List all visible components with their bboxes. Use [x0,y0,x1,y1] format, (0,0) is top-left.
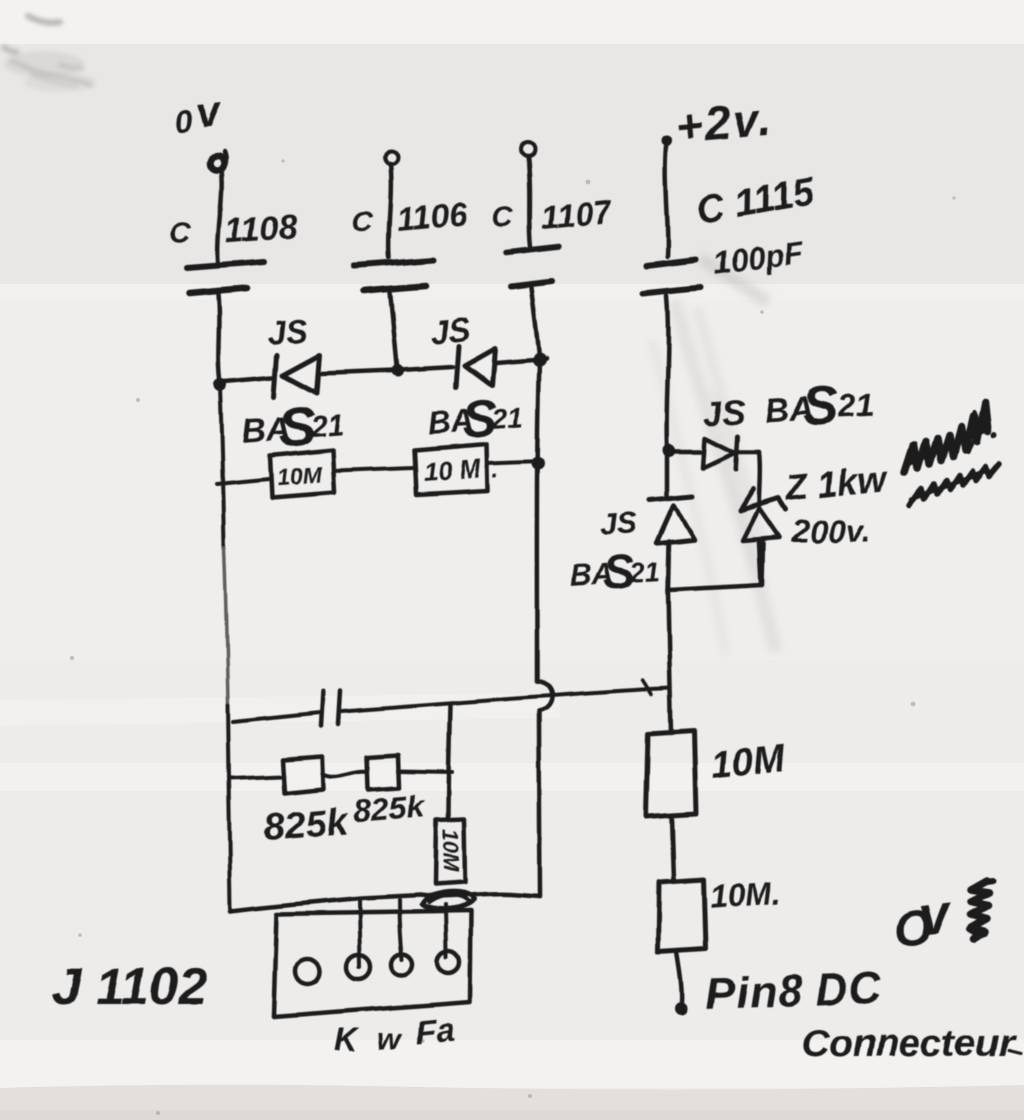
label JS (D2) [429,310,472,350]
node 0V label [172,87,225,141]
junction blob [421,892,474,910]
pin wires [359,899,446,967]
label C 1115 [692,170,819,233]
wire bottom loop [668,543,762,590]
diode D1 JS BAS21 [274,355,320,397]
wire left rail to coupling cap [233,713,320,722]
label JS BAS21 (D3) [702,374,876,443]
wire rail to R3 [668,591,671,733]
junction node B [392,365,404,377]
stray tick near wire junction [643,680,652,694]
diode D3 JS BAS21 [673,436,760,469]
scribble crossed-out note (lower) [910,464,999,506]
junction node A [214,379,227,392]
junction node D [663,445,676,458]
terminal (C1106 top) [385,151,398,164]
svg-text:JS: JS [266,311,309,351]
terminal node 0V [210,152,226,170]
wire hump (right rail jumps middle wire) [537,681,552,711]
svg-text:10M.: 10M. [709,875,782,916]
resistor 10M vertical (middle) [435,819,465,884]
label 100pF [711,234,806,281]
bottom wire [231,894,540,911]
wire left rail (node A down, upper dark segment) [220,388,224,548]
terminal (C1107 top) [521,142,535,156]
diode D4 JS BAS21 [650,496,694,543]
wire right rail lower [539,711,540,896]
wire 825k row segments [230,771,452,778]
zener Z1 [741,490,786,541]
diode D2 JS BAS21 [456,346,495,388]
svg-text:S: S [801,376,840,438]
resistor 825k #2 [367,755,399,790]
wire +2V to C1115 [665,147,667,257]
label Z 1kW [783,457,890,509]
wire 0V terminal to C1108 [218,169,222,262]
resistor 10M right [414,444,488,494]
connector pins [296,951,460,984]
svg-text:w: w [377,1021,403,1056]
svg-text:JS: JS [429,310,472,350]
terminal +2V [662,136,673,147]
svg-text:Fa: Fa [414,1010,456,1051]
wire left rail (pencil-gray mid segment) [224,548,228,706]
wire C1107 to node C [531,287,539,357]
connector J1102 box [274,911,471,1017]
svg-text:200v.: 200v. [791,513,870,549]
wire R4 to Pin8 [677,951,682,1002]
wire R3 to R4 [672,817,674,881]
svg-text:JS: JS [702,393,746,433]
svg-text:C: C [352,206,374,238]
scribble crossed-out note (upper) [904,402,988,472]
wire diode row segments [224,359,546,382]
svg-text:21: 21 [836,387,874,425]
svg-text:K: K [334,1021,360,1058]
label +2V [674,93,774,153]
capacitor C1106 [352,195,469,291]
label 825k 825k [261,788,429,850]
wire right rail upper [537,362,539,681]
svg-text:1107: 1107 [539,192,615,236]
resistor 825k #1 [282,756,323,793]
resistor 10M (R4) [658,880,706,951]
wire middle branch vertical [448,705,450,820]
wire terminal to C1107 [528,156,531,247]
svg-text:C: C [493,202,515,234]
label 10M (R3) [709,737,788,787]
coupling capacitor [321,691,340,726]
junction node C2 [532,457,545,470]
svg-text:825k: 825k [262,801,352,850]
svg-text:10M: 10M [276,461,323,490]
label 10M (vertical, rotated) [438,829,463,872]
pencil streaks right-middle [652,258,776,655]
label JS (D4) [599,504,640,542]
wire resistor row segments [217,461,542,484]
terminal Pin8 [675,1002,688,1015]
svg-text:C: C [169,217,192,250]
svg-text:JS: JS [599,504,640,542]
label Pin8 DC [705,964,883,1019]
wire rail node D to D4 [665,457,670,499]
svg-text:21: 21 [628,557,661,589]
svg-text:1106: 1106 [395,195,470,238]
svg-text:J 1102: J 1102 [52,958,207,1016]
wire left rail (lower dark segment) [228,706,231,908]
capacitor C1115 [643,260,701,293]
svg-text:Pin8 DC: Pin8 DC [705,964,883,1019]
label 10M. (R4) [709,875,782,916]
label 0V (bottom right) [889,881,993,958]
wire D4 to bottom loop / rail [668,541,669,591]
junction node C [532,353,546,367]
resistor 10M (R3) [646,731,696,817]
svg-text:10 M: 10 M [422,453,483,487]
capacitor C1107 [493,192,615,286]
svg-text:10M: 10M [709,737,788,787]
svg-text:10M: 10M [438,829,463,872]
resistor 10M left [270,450,335,498]
label Connecteur [801,1022,1020,1065]
label BAS21 (D1) [239,391,346,461]
label JS (D1) [266,311,309,351]
label 10M (left) [276,461,323,490]
svg-text:825k: 825k [352,788,428,830]
wire zener to bottom loop [763,543,764,585]
label BAS21 (D2) [425,387,524,451]
wire terminal to C1106 [389,163,391,258]
svg-text:Connecteur: Connecteur [801,1022,1015,1065]
label 10M (right) [422,452,500,488]
wire coupling cap to right rail (long) [342,688,669,711]
capacitor C1108 [169,207,299,294]
svg-text:21: 21 [489,401,523,434]
label BAS21 (D4) [569,545,662,603]
svg-text:21: 21 [308,408,345,443]
wire D3 to zener [758,452,763,503]
wire C1106 to node B [390,292,397,366]
wire C1108 to node A [218,295,220,383]
svg-text:1108: 1108 [224,207,300,250]
wire C1115 to node D [667,295,669,448]
svg-text:+2v.: +2v. [674,93,774,153]
